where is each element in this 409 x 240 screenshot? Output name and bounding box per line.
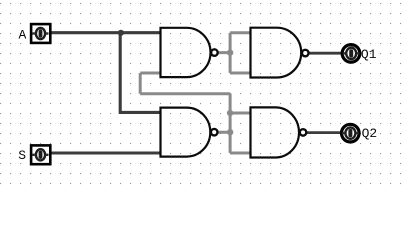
- svg-text:Q1: Q1: [361, 47, 377, 62]
- svg-text:S: S: [18, 148, 26, 163]
- svg-text:Q2: Q2: [362, 126, 378, 141]
- svg-text:A: A: [19, 28, 27, 43]
